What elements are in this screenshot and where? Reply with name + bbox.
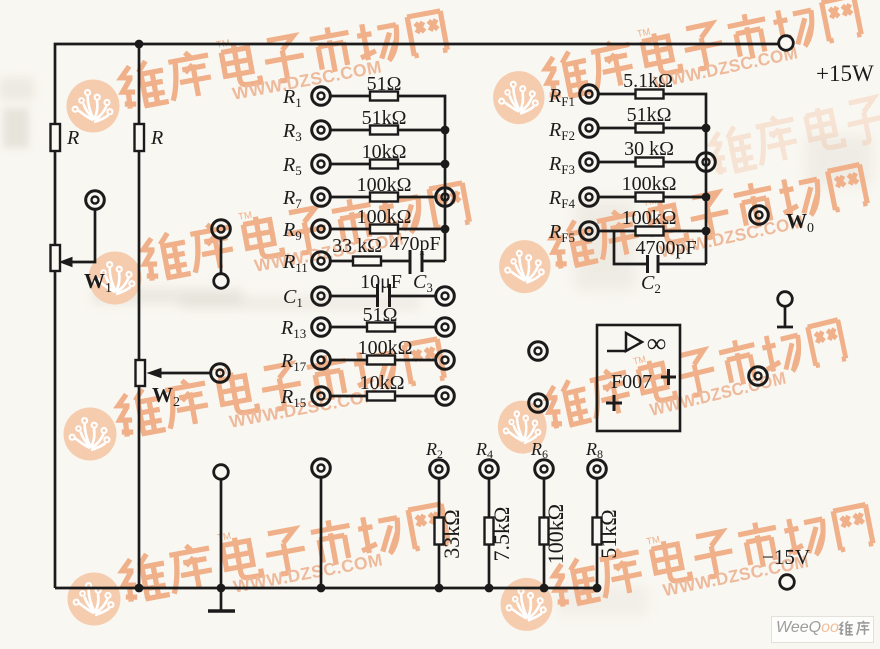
svg-text:R: R [66,127,79,149]
svg-text:W0: W0 [786,209,814,236]
svg-text:51kΩ: 51kΩ [596,509,621,558]
svg-text:R5: R5 [282,154,302,178]
svg-text:R4: R4 [475,439,493,461]
svg-text:51Ω: 51Ω [367,73,402,95]
svg-text:100kΩ: 100kΩ [622,173,677,195]
svg-text:100kΩ: 100kΩ [358,337,413,359]
svg-text:10μF: 10μF [360,271,402,293]
svg-text:4700pF: 4700pF [635,237,696,259]
svg-text:−15V: −15V [762,545,810,569]
svg-text:470pF: 470pF [389,233,440,255]
svg-text:100kΩ: 100kΩ [357,174,412,196]
svg-text:R17: R17 [280,350,307,374]
svg-text:C3: C3 [413,271,433,295]
svg-text:RF2: RF2 [548,119,575,143]
svg-text:∞: ∞ [647,328,666,358]
svg-text:R15: R15 [280,386,306,410]
svg-text:51Ω: 51Ω [363,304,398,326]
svg-text:7.5kΩ: 7.5kΩ [489,507,514,562]
svg-text:F007: F007 [611,371,652,393]
svg-text:C2: C2 [641,272,661,296]
svg-text:33 kΩ: 33 kΩ [332,235,382,257]
svg-text:100kΩ: 100kΩ [543,504,568,564]
svg-text:RF1: RF1 [548,85,575,109]
svg-text:RF5: RF5 [548,221,575,245]
svg-text:R13: R13 [280,317,306,341]
svg-text:RF4: RF4 [548,187,575,211]
svg-text:R2: R2 [425,439,443,461]
svg-text:10kΩ: 10kΩ [360,372,405,394]
svg-text:+15W: +15W [816,61,874,86]
svg-text:R1: R1 [282,86,302,110]
svg-text:R7: R7 [282,187,302,211]
svg-text:10kΩ: 10kΩ [362,141,407,163]
svg-text:33kΩ: 33kΩ [439,509,464,558]
svg-text:R: R [150,127,163,149]
svg-text:100kΩ: 100kΩ [622,207,677,229]
svg-text:100kΩ: 100kΩ [357,206,412,228]
svg-text:51kΩ: 51kΩ [362,107,407,129]
svg-text:R3: R3 [282,120,302,144]
svg-text:C1: C1 [283,286,303,310]
svg-text:R6: R6 [530,439,548,461]
svg-text:W2: W2 [152,383,180,410]
svg-text:W1: W1 [84,269,112,296]
svg-text:RF3: RF3 [548,153,575,177]
svg-text:5.1kΩ: 5.1kΩ [623,70,673,92]
svg-text:R9: R9 [282,219,302,243]
svg-text:30 kΩ: 30 kΩ [624,138,674,160]
svg-text:R8: R8 [585,439,603,461]
svg-text:R11: R11 [282,251,308,275]
svg-text:51kΩ: 51kΩ [627,104,672,126]
